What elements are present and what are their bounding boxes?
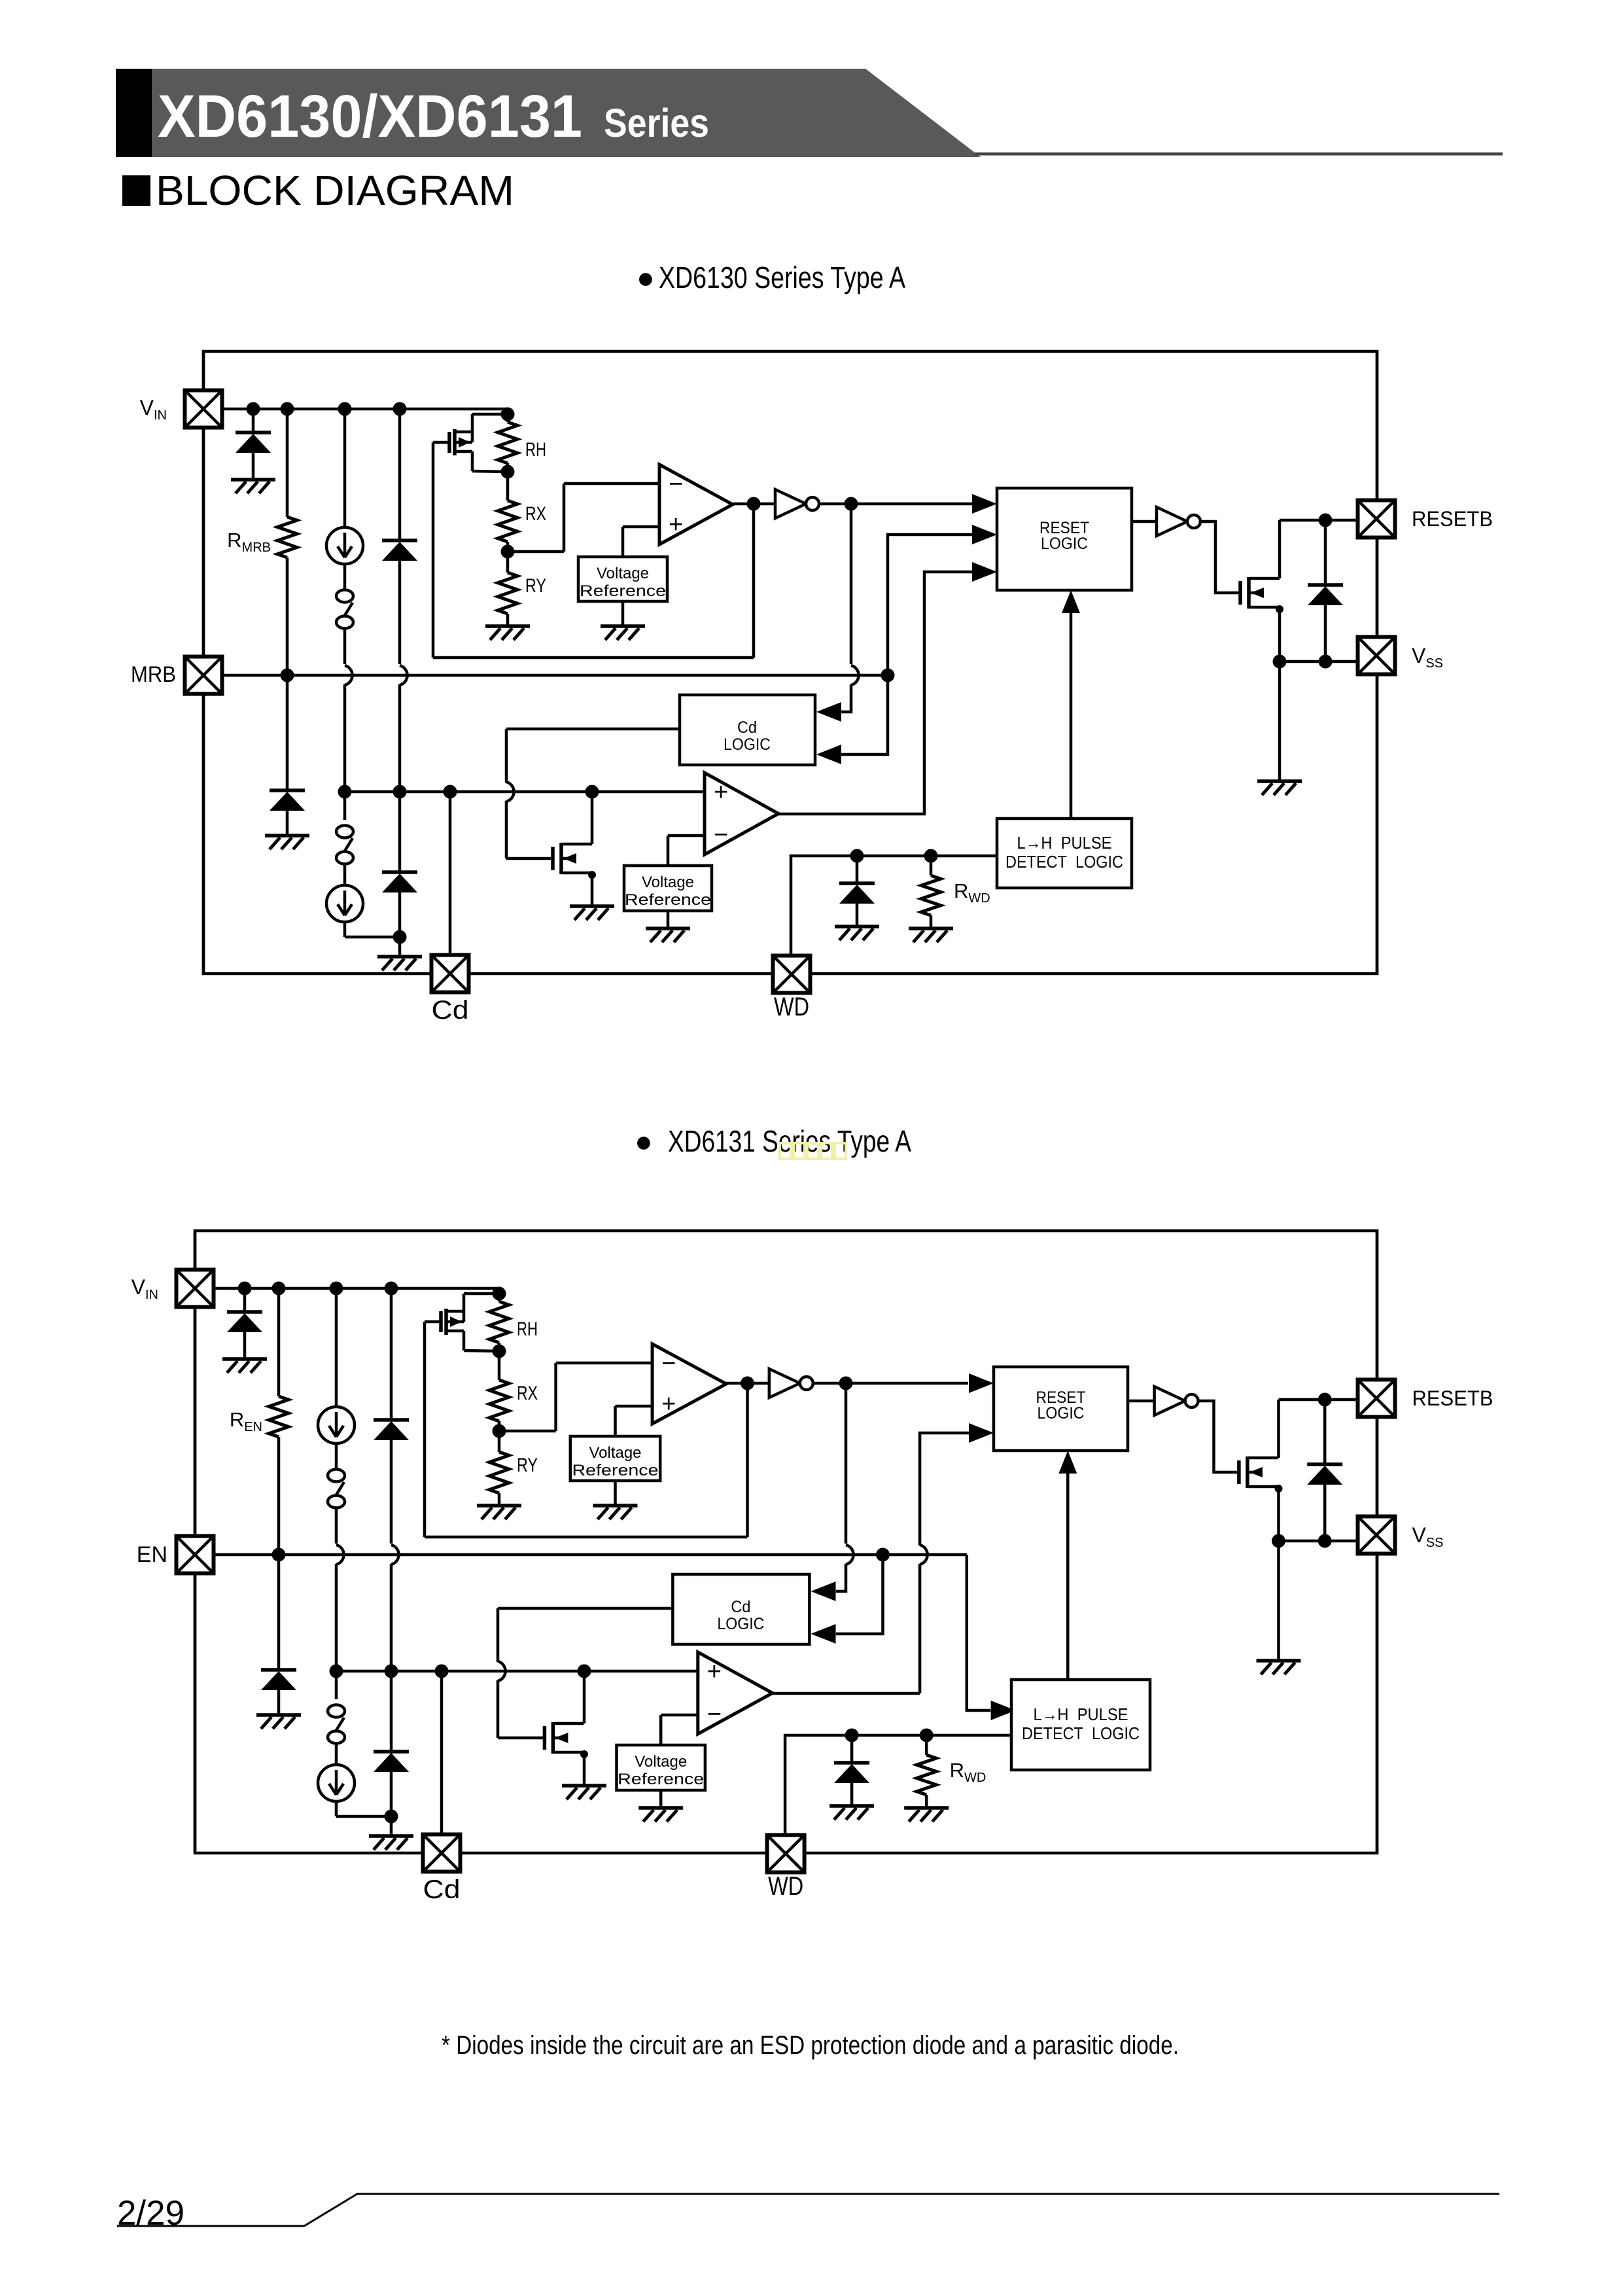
svg-text:RESETB: RESETB <box>1412 507 1493 531</box>
svg-text:Reference: Reference <box>572 1462 659 1479</box>
svg-text:Reference: Reference <box>618 1771 704 1788</box>
svg-text:RWD: RWD <box>950 1759 986 1785</box>
svg-text:* Diodes inside the circuit ar: * Diodes inside the circuit are an ESD p… <box>442 2031 1179 2060</box>
svg-text:−: − <box>669 470 683 498</box>
svg-text:●: ● <box>635 1124 653 1158</box>
svg-text:REN: REN <box>230 1408 262 1434</box>
svg-text:Reference: Reference <box>625 891 711 909</box>
svg-text:MRB: MRB <box>131 662 176 687</box>
svg-text:RY: RY <box>525 575 546 597</box>
svg-text:Cd: Cd <box>737 718 757 737</box>
svg-text:+: + <box>714 779 728 806</box>
svg-text:LOGIC: LOGIC <box>724 735 771 754</box>
svg-text:●: ● <box>637 260 655 294</box>
svg-text:Cd: Cd <box>432 996 469 1025</box>
svg-text:RH: RH <box>517 1318 538 1340</box>
svg-text:RESETB: RESETB <box>1412 1386 1493 1410</box>
svg-text:−: − <box>714 821 728 849</box>
svg-text:DETECT LOGIC: DETECT LOGIC <box>1005 852 1123 872</box>
svg-text:Voltage: Voltage <box>642 874 694 891</box>
svg-text:RX: RX <box>517 1383 538 1404</box>
svg-text:LOGIC: LOGIC <box>717 1615 764 1633</box>
svg-text:−: − <box>661 1350 676 1377</box>
svg-text:−: − <box>707 1701 722 1728</box>
svg-text:DETECT LOGIC: DETECT LOGIC <box>1022 1723 1140 1743</box>
svg-text:LOGIC: LOGIC <box>1038 1404 1085 1422</box>
svg-text:WD: WD <box>768 1872 803 1901</box>
svg-text:EN: EN <box>137 1542 167 1567</box>
svg-text:L→H PULSE: L→H PULSE <box>1034 1704 1128 1724</box>
svg-text:XD6130 Series Type A: XD6130 Series Type A <box>659 260 905 294</box>
svg-text:RMRB: RMRB <box>227 529 271 555</box>
svg-text:Cd: Cd <box>423 1875 461 1904</box>
svg-text:RH: RH <box>525 439 546 461</box>
svg-text:+: + <box>661 1390 676 1418</box>
svg-text:LOGIC: LOGIC <box>1041 535 1088 553</box>
svg-text:WD: WD <box>774 993 809 1021</box>
svg-text:VSS: VSS <box>1412 1523 1444 1550</box>
svg-text:RX: RX <box>525 503 546 525</box>
svg-text:L→H PULSE: L→H PULSE <box>1017 833 1112 853</box>
svg-text:VIN: VIN <box>131 1275 158 1302</box>
svg-text:+: + <box>707 1658 722 1686</box>
svg-text:RY: RY <box>517 1455 538 1476</box>
svg-text:VIN: VIN <box>140 396 167 423</box>
svg-text:Voltage: Voltage <box>589 1444 642 1462</box>
svg-text:+: + <box>669 511 683 539</box>
svg-text:Cd: Cd <box>731 1598 750 1616</box>
svg-text:Reference: Reference <box>580 582 666 600</box>
svg-text:Voltage: Voltage <box>597 565 649 582</box>
svg-text:Voltage: Voltage <box>635 1753 687 1771</box>
svg-text:VSS: VSS <box>1412 644 1443 671</box>
svg-text:RWD: RWD <box>954 879 990 906</box>
